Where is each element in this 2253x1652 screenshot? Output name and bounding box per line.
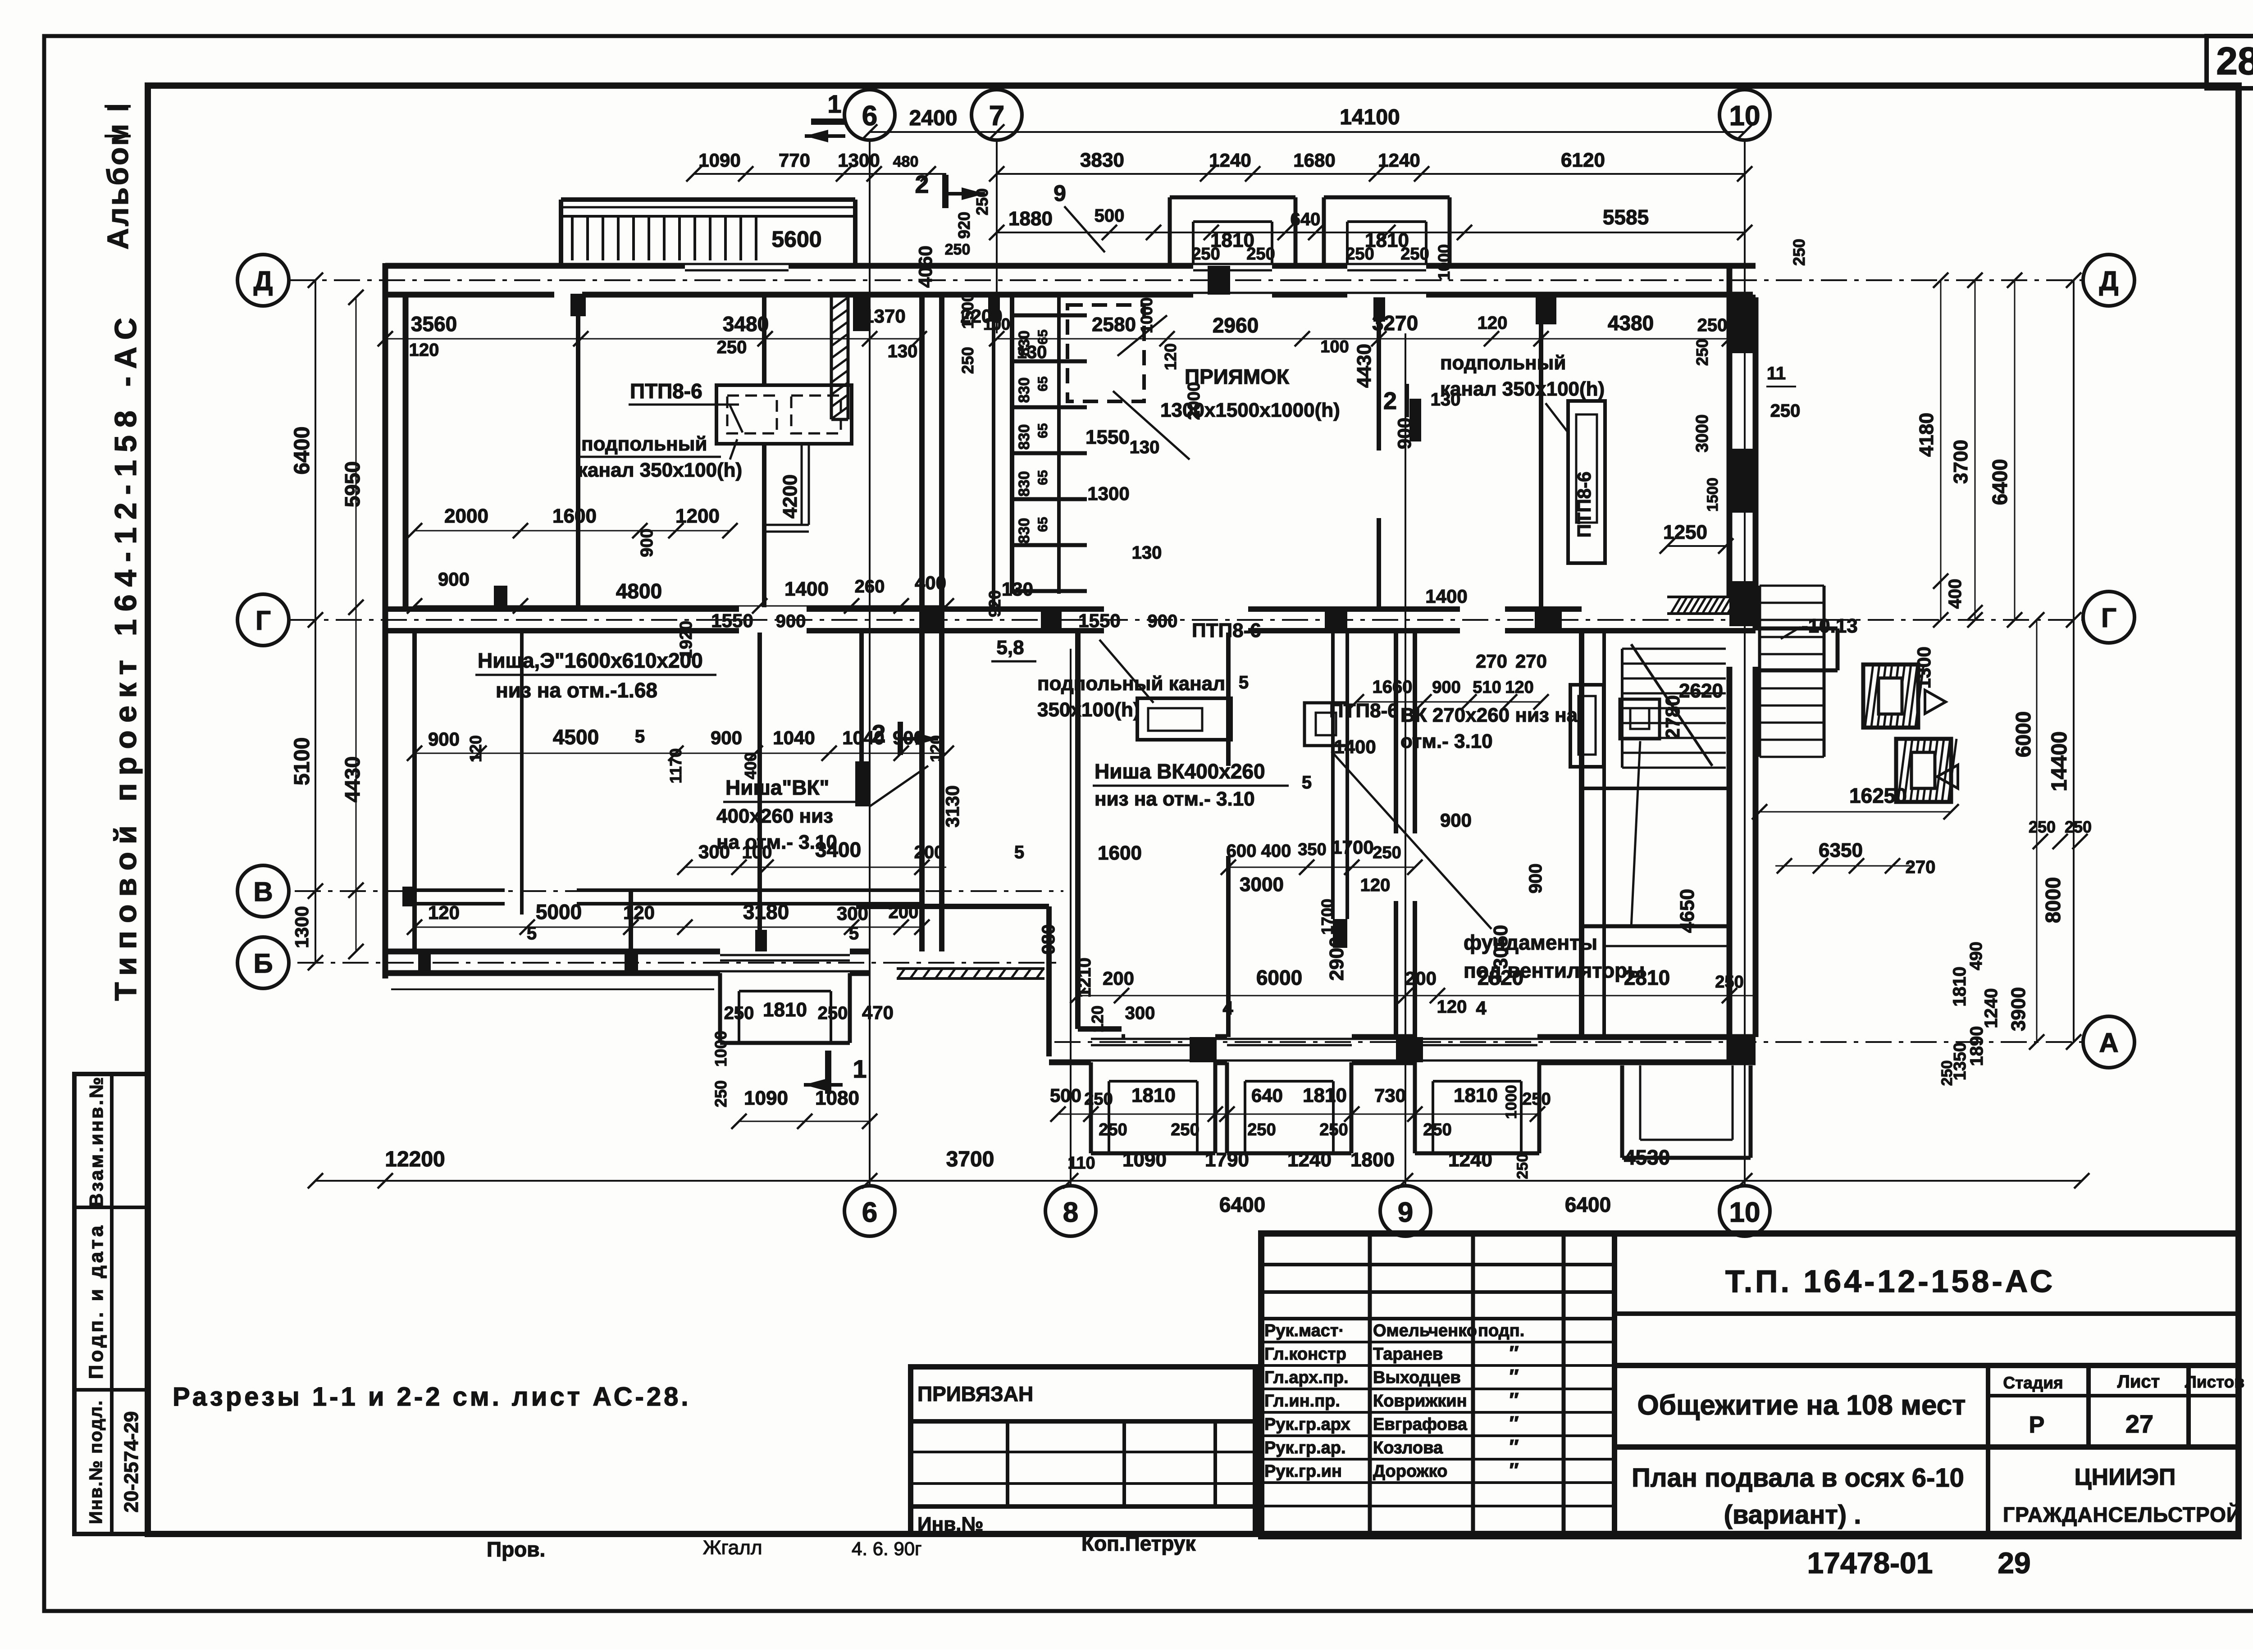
svg-text:3560: 3560	[411, 312, 457, 336]
step jog to A wall	[1078, 1026, 1122, 1032]
svg-text:6400: 6400	[1219, 1193, 1265, 1216]
axis G line	[291, 619, 2083, 621]
right side dim chains	[1940, 280, 1942, 620]
axis D line	[289, 279, 2083, 281]
svg-text:250: 250	[1084, 1090, 1113, 1109]
partition x1158	[520, 633, 524, 915]
window bays below wall A	[1089, 1062, 1093, 1153]
svg-text:″: ″	[1509, 1365, 1519, 1388]
sheet number box 28	[2207, 36, 2253, 88]
svg-text:1: 1	[827, 90, 841, 118]
svg-text:1890: 1890	[1967, 1026, 1987, 1066]
svg-text:Таранев: Таранев	[1373, 1345, 1443, 1364]
svg-text:фундаменты: фундаменты	[1464, 931, 1597, 954]
svg-text:6000: 6000	[1256, 966, 1302, 989]
svg-text:10: 10	[1729, 100, 1760, 132]
svg-text:1250: 1250	[1663, 521, 1707, 543]
svg-text:250: 250	[1171, 1120, 1199, 1139]
svg-text:Рук.гр.ин: Рук.гр.ин	[1264, 1462, 1342, 1481]
svg-text:120: 120	[1161, 343, 1180, 370]
svg-text:Листов: Листов	[2185, 1373, 2244, 1391]
svg-text:1700: 1700	[1318, 899, 1336, 935]
svg-text:900: 900	[1440, 810, 1472, 831]
svg-text:65: 65	[1035, 376, 1050, 391]
svg-text:Р: Р	[2029, 1412, 2045, 1438]
svg-text:4800: 4800	[616, 579, 662, 603]
svg-text:3130: 3130	[942, 785, 963, 827]
axis circle 9 bottom	[1380, 1186, 1431, 1236]
svg-text:250: 250	[1099, 1120, 1127, 1139]
svg-text:250: 250	[1938, 1060, 1956, 1086]
pier at stair bump right	[853, 293, 870, 331]
niche wall right	[1057, 297, 1061, 594]
svg-text:Гл.арх.пр.: Гл.арх.пр.	[1264, 1368, 1349, 1387]
vent foundation 1	[1304, 703, 1347, 746]
svg-text:Подп. и дата: Подп. и дата	[85, 1223, 107, 1379]
svg-text:1800: 1800	[1350, 1149, 1395, 1171]
axis circle Г left	[237, 594, 289, 646]
leaders near G middle	[1099, 640, 1154, 703]
svg-text:250: 250	[1423, 1120, 1451, 1139]
svg-text:250: 250	[973, 188, 991, 215]
wall D inner line	[385, 292, 554, 298]
svg-text:250: 250	[818, 1003, 848, 1023]
svg-text:640: 640	[1291, 209, 1321, 229]
privyazan table	[911, 1367, 1255, 1534]
svg-text:1700: 1700	[1332, 837, 1373, 858]
svg-text:4: 4	[1222, 997, 1233, 1019]
axis circle В left	[237, 865, 289, 917]
svg-text:250: 250	[711, 1080, 730, 1107]
svg-text:510: 510	[1473, 678, 1501, 697]
axis circle 6 top	[844, 90, 895, 140]
svg-text:Гл.констр: Гл.констр	[1264, 1345, 1346, 1364]
svg-text:1300: 1300	[291, 906, 312, 948]
top dim row 2 right	[997, 173, 1745, 175]
partition x1686	[757, 633, 762, 951]
partition x3420	[1539, 297, 1543, 607]
svg-text:ГРАЖДАНСЕЛЬСТРОЙ: ГРАЖДАНСЕЛЬСТРОЙ	[2003, 1503, 2242, 1526]
svg-text:270: 270	[1906, 857, 1936, 877]
small unit below G x3485	[1570, 685, 1604, 767]
mid wall left line	[919, 297, 925, 607]
corner annex below A wall right	[1620, 1065, 1624, 1158]
pier D x3060	[1373, 297, 1385, 322]
svg-text:5585: 5585	[1603, 205, 1649, 229]
svg-text:Лист: Лист	[2117, 1372, 2160, 1392]
svg-text:1880: 1880	[1008, 208, 1053, 230]
svg-text:770: 770	[779, 150, 810, 171]
step wall x2328	[1046, 906, 1052, 1056]
left wall inner upper	[403, 295, 409, 607]
mid wall right line	[939, 297, 944, 607]
svg-text:900: 900	[638, 528, 657, 557]
pier top of x1283	[570, 294, 586, 316]
svg-text:1810: 1810	[1950, 967, 1970, 1007]
svg-text:Выходцев: Выходцев	[1373, 1368, 1461, 1387]
svg-text:10: 10	[1729, 1197, 1760, 1228]
svg-text:980: 980	[1039, 924, 1058, 955]
axis A line	[1054, 1041, 2084, 1043]
svg-text:Козлова: Козлова	[1373, 1438, 1443, 1457]
svg-text:1240: 1240	[1981, 988, 2001, 1029]
title block right part	[1614, 1311, 2239, 1316]
svg-text:Жгалл: Жгалл	[703, 1537, 762, 1559]
svg-text:130: 130	[1431, 390, 1461, 410]
title block signature table	[1368, 1233, 1372, 1536]
svg-text:260: 260	[855, 577, 885, 596]
svg-text:400: 400	[915, 572, 946, 593]
axis circle 10 top	[1719, 90, 1770, 140]
svg-text:Рук.гр.арх: Рук.гр.арх	[1264, 1415, 1350, 1434]
svg-text:250: 250	[958, 347, 977, 374]
svg-text:250: 250	[1247, 1120, 1276, 1139]
left wall outer	[383, 263, 388, 978]
svg-text:ПРИВЯЗАН: ПРИВЯЗАН	[917, 1382, 1033, 1406]
svg-text:2620: 2620	[1679, 680, 1723, 702]
svg-text:Ниша"ВК": Ниша"ВК"	[725, 776, 829, 799]
right wall inner	[1753, 297, 1759, 628]
svg-text:200: 200	[889, 902, 919, 922]
svg-text:490: 490	[1967, 942, 1986, 970]
svg-text:1810: 1810	[1131, 1084, 1176, 1106]
svg-text:920: 920	[985, 590, 1004, 617]
step wall x2392	[1075, 633, 1081, 1029]
svg-text:3830: 3830	[1080, 149, 1124, 171]
pier x1110 above G	[494, 586, 507, 607]
wall G top line	[385, 606, 739, 612]
pier A wall 1	[1190, 1037, 1217, 1062]
svg-text:12200: 12200	[385, 1147, 445, 1171]
svg-text:5: 5	[527, 924, 537, 943]
svg-text:1300: 1300	[1913, 646, 1934, 688]
svg-text:3700: 3700	[946, 1147, 994, 1171]
svg-text:250: 250	[1770, 401, 1801, 421]
svg-text:ПРИЯМОК: ПРИЯМОК	[1185, 365, 1290, 388]
svg-text:отм.- 3.10: отм.- 3.10	[1400, 730, 1493, 752]
svg-text:300: 300	[698, 841, 730, 862]
svg-text:1240: 1240	[1448, 1149, 1492, 1171]
svg-text:подп.: подп.	[1478, 1321, 1524, 1340]
pier x1686 at B	[755, 930, 767, 951]
svg-text:270: 270	[1476, 651, 1507, 672]
svg-text:Евграфова: Евграфова	[1373, 1415, 1468, 1434]
svg-text:1040: 1040	[842, 727, 884, 748]
svg-text:4: 4	[1476, 997, 1487, 1019]
svg-text:6: 6	[862, 1197, 877, 1228]
axis circle Г right	[2083, 592, 2134, 643]
svg-text:Пров.: Пров.	[487, 1538, 545, 1561]
svg-text:3900: 3900	[2007, 987, 2030, 1031]
mid-left dims	[415, 530, 730, 532]
svg-text:5950: 5950	[341, 461, 364, 507]
pier G x2330	[1041, 607, 1062, 633]
svg-text:250: 250	[1319, 1120, 1348, 1139]
svg-text:Ниша,Э"1600х610х200: Ниша,Э"1600х610х200	[478, 649, 703, 672]
svg-text:5: 5	[635, 727, 645, 746]
svg-text:250: 250	[724, 1003, 754, 1023]
svg-text:4060: 4060	[915, 246, 936, 287]
svg-text:250: 250	[1345, 245, 1374, 264]
svg-text:3000: 3000	[1693, 414, 1712, 453]
svg-text:Г: Г	[255, 605, 271, 636]
svg-text:5100: 5100	[290, 737, 314, 786]
svg-text:6400: 6400	[1988, 459, 2011, 505]
svg-text:8000: 8000	[2041, 877, 2065, 923]
svg-text:250: 250	[1697, 315, 1728, 335]
svg-text:100: 100	[742, 842, 772, 862]
axis circle Б left	[237, 937, 289, 988]
svg-text:9: 9	[1398, 1197, 1413, 1228]
wall A top line	[1122, 1034, 1125, 1040]
svg-text:Взам.инв.№: Взам.инв.№	[86, 1075, 107, 1207]
partition x1400	[629, 890, 633, 951]
svg-text:130: 130	[1132, 543, 1162, 563]
PTP8-6 heater left	[716, 385, 852, 444]
svg-text:120: 120	[1437, 997, 1467, 1017]
svg-text:4380: 4380	[1608, 311, 1654, 335]
pier x1400 at B	[625, 951, 638, 973]
right wall outer	[1727, 263, 1733, 597]
axis vertical grid lines	[869, 141, 871, 1185]
svg-text:470: 470	[862, 1002, 894, 1023]
svg-text:5,8: 5,8	[996, 637, 1024, 659]
svg-text:4650: 4650	[1676, 889, 1698, 933]
svg-text:1300х1500х1000(h): 1300х1500х1000(h)	[1160, 399, 1340, 421]
svg-text:830: 830	[1016, 378, 1033, 403]
svg-text:4. 6. 90г: 4. 6. 90г	[852, 1538, 921, 1559]
svg-text:9: 9	[1054, 181, 1066, 206]
svg-text:250: 250	[1373, 843, 1401, 862]
internal stair treads	[1622, 648, 1726, 650]
svg-text:Т.П. 164-12-158-АС: Т.П. 164-12-158-АС	[1725, 1264, 2055, 1299]
axis B line	[297, 962, 1063, 964]
svg-text:Дорожко: Дорожко	[1373, 1462, 1447, 1481]
V row dims	[415, 927, 922, 928]
svg-text:500: 500	[1050, 1085, 1081, 1106]
svg-text:6400: 6400	[290, 427, 314, 475]
svg-text:400: 400	[1261, 841, 1291, 861]
svg-text:250: 250	[1693, 339, 1711, 366]
hatched pad 2 with flag	[1898, 739, 1906, 801]
svg-text:Б: Б	[253, 948, 273, 978]
svg-text:Коврижкин: Коврижкин	[1373, 1392, 1467, 1411]
svg-text:400х260 низ: 400х260 низ	[716, 805, 833, 827]
svg-text:1810: 1810	[1303, 1084, 1347, 1106]
partition x3060	[1377, 297, 1381, 451]
svg-text:Рук.гр.ар.: Рук.гр.ар.	[1264, 1438, 1346, 1457]
svg-text:2: 2	[1383, 387, 1397, 414]
svg-text:подпольный: подпольный	[581, 433, 707, 455]
svg-text:120: 120	[428, 902, 460, 923]
pier mid at G	[919, 607, 944, 633]
svg-text:5: 5	[849, 924, 859, 943]
pier D x2205	[988, 297, 1000, 322]
svg-text:План подвала в осях 6-10: План подвала в осях 6-10	[1632, 1463, 1964, 1493]
svg-text:120: 120	[1505, 678, 1533, 697]
hatched pad 1 with flag	[1865, 664, 1873, 727]
pier D wall at x2700	[1208, 266, 1230, 295]
svg-text:1210: 1210	[1075, 958, 1095, 998]
svg-text:11: 11	[1767, 364, 1786, 383]
svg-text:1200: 1200	[675, 505, 720, 527]
pier right 2	[1729, 449, 1756, 513]
svg-text:250: 250	[945, 241, 971, 258]
svg-text:Коп.Петрук: Коп.Петрук	[1081, 1532, 1196, 1555]
svg-text:1090: 1090	[744, 1087, 788, 1109]
svg-text:подпольный: подпольный	[1440, 352, 1566, 374]
svg-text:200: 200	[1103, 968, 1134, 989]
svg-text:1790: 1790	[1205, 1149, 1249, 1171]
left wall inner lower	[412, 633, 417, 951]
svg-text:200: 200	[1405, 968, 1437, 989]
wall V line1	[415, 888, 505, 892]
pier G x2958	[1325, 607, 1347, 633]
svg-text:900: 900	[893, 727, 924, 748]
hatched shaft near stair	[831, 297, 848, 309]
svg-text:250: 250	[1715, 973, 1743, 992]
svg-text:ПТП8-6: ПТП8-6	[1573, 472, 1595, 538]
lower-left dim row	[415, 753, 946, 754]
svg-text:130: 130	[888, 341, 918, 361]
svg-text:Стадия: Стадия	[2003, 1374, 2063, 1392]
wall A bottom line	[1049, 1060, 1091, 1065]
svg-text:4430: 4430	[1353, 344, 1375, 388]
PTP8-6 heater middle	[1137, 698, 1231, 740]
svg-text:1810: 1810	[763, 999, 807, 1021]
wall B bottom line	[385, 970, 720, 976]
pier A wall 2	[1396, 1037, 1423, 1062]
svg-text:400: 400	[1945, 579, 1965, 609]
svg-text:Общежитие на 108 мест: Общежитие на 108 мест	[1637, 1390, 1966, 1421]
hatched band right porch	[1671, 597, 1681, 614]
axis circle Д right	[2083, 255, 2134, 306]
svg-text:640: 640	[1251, 1085, 1283, 1106]
svg-text:130: 130	[1002, 578, 1033, 600]
svg-text:2900: 2900	[1326, 937, 1348, 981]
svg-text:1550: 1550	[711, 610, 753, 631]
svg-text:1600: 1600	[1098, 842, 1142, 864]
svg-text:2810: 2810	[1624, 966, 1670, 989]
svg-text:120: 120	[409, 340, 439, 360]
top dim row 1	[870, 131, 1745, 133]
svg-text:1370: 1370	[863, 305, 905, 327]
svg-text:1550: 1550	[1085, 426, 1130, 448]
top dim row 3	[997, 232, 1745, 233]
svg-text:27: 27	[2125, 1410, 2153, 1438]
partition x2205	[992, 297, 995, 607]
svg-text:250: 250	[1400, 245, 1429, 264]
svg-text:3700: 3700	[1950, 440, 1972, 484]
svg-text:270: 270	[1515, 651, 1547, 672]
pier right 3	[1729, 581, 1756, 626]
pier D x3420	[1536, 297, 1556, 324]
svg-text:920: 920	[955, 212, 973, 239]
svg-text:65: 65	[1035, 517, 1050, 532]
svg-text:3270: 3270	[1372, 311, 1418, 335]
left vertical dim chains	[315, 280, 316, 963]
svg-text:Омельченко: Омельченко	[1373, 1321, 1477, 1340]
svg-text:29: 29	[1998, 1546, 2030, 1579]
pier left at V	[402, 887, 417, 906]
svg-text:65: 65	[1035, 423, 1050, 438]
svg-text:1080: 1080	[815, 1087, 859, 1109]
svg-text:3180: 3180	[743, 900, 789, 924]
svg-text:250: 250	[717, 337, 747, 357]
vent foundation 2	[1620, 699, 1660, 739]
svg-text:120: 120	[1478, 313, 1508, 333]
svg-text:2960: 2960	[1213, 314, 1259, 337]
left margin column boxes	[74, 1074, 148, 1534]
svg-text:14400: 14400	[2048, 731, 2071, 791]
svg-text:120: 120	[927, 735, 945, 762]
svg-text:Разрезы 1-1 и 2-2 см. лист АС-: Разрезы 1-1 и 2-2 см. лист АС-28.	[173, 1382, 691, 1411]
wall D outer line	[385, 263, 685, 269]
svg-text:350: 350	[1298, 840, 1326, 859]
partition x3140	[1413, 633, 1417, 833]
svg-text:-10.13: -10.13	[1801, 615, 1858, 637]
svg-text:900: 900	[1432, 678, 1460, 697]
svg-text:900: 900	[428, 728, 460, 750]
svg-text:300: 300	[837, 903, 868, 924]
svg-text:3400: 3400	[815, 838, 861, 861]
svg-text:830: 830	[1016, 518, 1033, 544]
svg-text:низ на отм.- 3.10: низ на отм.- 3.10	[1095, 788, 1255, 810]
svg-text:6000: 6000	[2011, 711, 2035, 757]
svg-text:1400: 1400	[1425, 586, 1467, 607]
axis circle 8 bottom	[1045, 1186, 1096, 1236]
svg-text:″: ″	[1509, 1342, 1519, 1364]
pier right 1	[1729, 295, 1756, 353]
svg-text:6120: 6120	[1561, 149, 1605, 171]
svg-text:4500: 4500	[553, 725, 599, 749]
svg-text:480: 480	[893, 153, 919, 170]
niche wall left	[1010, 297, 1014, 594]
svg-text:1240: 1240	[1378, 150, 1420, 171]
svg-text:низ на отм.-1.68: низ на отм.-1.68	[496, 678, 657, 702]
svg-text:1000: 1000	[711, 1031, 730, 1067]
partition x1912	[859, 633, 864, 761]
title block outer	[1261, 1233, 2239, 1536]
svg-text:6400: 6400	[1565, 1193, 1611, 1216]
svg-text:1660: 1660	[1373, 677, 1413, 697]
svg-text:3000: 3000	[1240, 874, 1284, 896]
svg-text:1170: 1170	[666, 748, 685, 783]
pier x3420 at G	[1535, 607, 1562, 633]
svg-text:16250: 16250	[1849, 784, 1907, 807]
wall G bottom line	[385, 628, 739, 633]
axis circle А right	[2083, 1016, 2134, 1068]
svg-text:1000: 1000	[1435, 244, 1453, 280]
svg-text:1550: 1550	[1078, 610, 1120, 631]
axis circle 10 bottom	[1719, 1186, 1770, 1236]
svg-text:900: 900	[1148, 611, 1178, 631]
svg-text:Ниша ВК400х260: Ниша ВК400х260	[1095, 760, 1265, 783]
svg-text:1400: 1400	[1334, 736, 1376, 757]
svg-text:120: 120	[623, 902, 655, 923]
svg-text:300: 300	[1125, 1003, 1155, 1023]
svg-text:2580: 2580	[1092, 314, 1136, 336]
partition x1696	[762, 297, 766, 385]
svg-text:Альбом I: Альбом I	[101, 102, 134, 250]
svg-text:250: 250	[2029, 818, 2056, 836]
svg-text:Типовой проект 164-12-158 -АС: Типовой проект 164-12-158 -АС	[109, 310, 143, 1001]
pier left at B	[418, 951, 431, 973]
svg-text:65: 65	[1035, 470, 1050, 485]
svg-text:5: 5	[1302, 773, 1312, 792]
svg-text:ПТП8-6: ПТП8-6	[1192, 619, 1261, 642]
svg-text:2780: 2780	[1662, 695, 1684, 739]
